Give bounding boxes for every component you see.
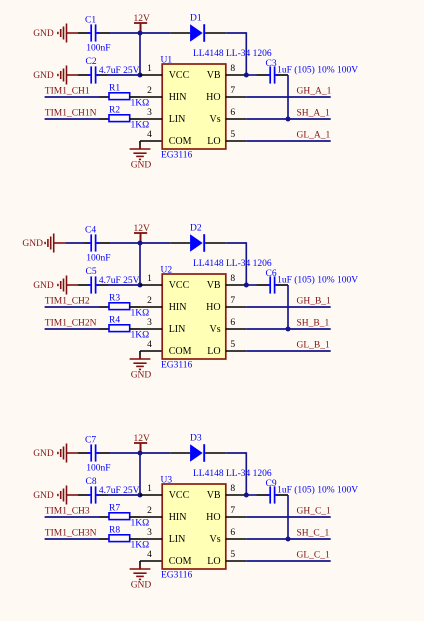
- svg-text:4: 4: [147, 130, 152, 140]
- svg-text:C3: C3: [266, 59, 277, 69]
- svg-text:VCC: VCC: [169, 490, 190, 501]
- svg-text:GND: GND: [22, 239, 43, 249]
- power port GND (U1 VCC cap): [58, 66, 78, 85]
- pin 4 (COM): [147, 550, 191, 567]
- svg-text:HO: HO: [206, 92, 220, 103]
- svg-text:3: 3: [147, 318, 152, 328]
- capacitor C4: [84, 234, 111, 251]
- svg-text:C1: C1: [85, 15, 96, 25]
- svg-text:5: 5: [230, 340, 235, 350]
- svg-text:HO: HO: [206, 512, 220, 523]
- wire: [139, 141, 141, 149]
- svg-text:1: 1: [147, 484, 152, 494]
- svg-text:U2: U2: [161, 266, 173, 276]
- svg-text:8: 8: [230, 484, 235, 494]
- power port GND (U2 top rail): [45, 234, 65, 253]
- svg-text:TIM1_CH3: TIM1_CH3: [45, 506, 90, 516]
- wire: [246, 140, 330, 142]
- svg-text:R2: R2: [109, 105, 120, 115]
- IC U2 EG3116: [162, 274, 226, 359]
- svg-text:Vs: Vs: [209, 534, 220, 545]
- junction: [138, 241, 143, 246]
- capacitor C6: [257, 276, 289, 293]
- wire: [108, 74, 140, 76]
- svg-text:VB: VB: [207, 280, 221, 291]
- junction: [286, 117, 291, 122]
- svg-text:C4: C4: [85, 225, 96, 235]
- svg-text:VB: VB: [207, 70, 221, 81]
- wire: [246, 350, 330, 352]
- svg-text:3: 3: [147, 108, 152, 118]
- svg-text:12V: 12V: [134, 224, 151, 234]
- svg-text:C5: C5: [86, 267, 97, 277]
- wire: [45, 538, 99, 540]
- power port GND (U3 top rail): [58, 444, 78, 463]
- svg-text:1KΩ: 1KΩ: [131, 309, 150, 319]
- ground (U1 COM): [130, 145, 151, 159]
- svg-text:SH_A_1: SH_A_1: [297, 108, 331, 118]
- junction: [286, 327, 291, 332]
- svg-text:R3: R3: [109, 293, 120, 303]
- pin 3 (LIN): [140, 318, 185, 335]
- wire: [140, 140, 162, 142]
- IC U1 EG3116: [162, 64, 226, 149]
- svg-text:TIM1_CH1: TIM1_CH1: [45, 86, 90, 96]
- svg-text:1uF (105) 10% 100V: 1uF (105) 10% 100V: [277, 65, 358, 76]
- svg-text:VCC: VCC: [169, 280, 190, 291]
- svg-text:7: 7: [230, 296, 235, 306]
- svg-text:GND: GND: [131, 160, 152, 170]
- svg-text:GND: GND: [33, 491, 54, 501]
- svg-text:SH_C_1: SH_C_1: [297, 528, 330, 538]
- svg-text:EG3116: EG3116: [161, 570, 193, 580]
- svg-text:1KΩ: 1KΩ: [131, 331, 150, 341]
- ground (U2 COM): [130, 355, 151, 369]
- svg-text:VB: VB: [207, 490, 221, 501]
- wire: [45, 118, 99, 120]
- svg-text:GH_C_1: GH_C_1: [297, 506, 332, 516]
- svg-text:2: 2: [147, 86, 152, 96]
- IC U3 EG3116: [162, 484, 226, 569]
- svg-text:100nF: 100nF: [86, 253, 110, 263]
- pin 5 (LO): [207, 340, 246, 357]
- pin 3 (LIN): [140, 108, 185, 125]
- wire: [226, 242, 246, 244]
- svg-text:C8: C8: [86, 477, 97, 487]
- svg-text:LO: LO: [207, 346, 220, 357]
- capacitor C1: [78, 24, 110, 41]
- svg-text:VCC: VCC: [169, 70, 190, 81]
- svg-text:TIM1_CH2N: TIM1_CH2N: [45, 318, 97, 328]
- svg-text:LO: LO: [207, 556, 220, 567]
- svg-text:GL_C_1: GL_C_1: [297, 550, 331, 560]
- wire: [246, 284, 256, 286]
- wire: [245, 32, 247, 75]
- svg-text:TIM1_CH1N: TIM1_CH1N: [45, 108, 97, 118]
- junction: [138, 493, 143, 498]
- svg-text:EG3116: EG3116: [161, 360, 193, 370]
- wire: [226, 32, 246, 34]
- wire: [245, 452, 247, 495]
- svg-text:100nF: 100nF: [86, 43, 110, 53]
- svg-text:2: 2: [147, 296, 152, 306]
- svg-text:2: 2: [147, 506, 152, 516]
- svg-text:LO: LO: [207, 136, 220, 147]
- svg-text:LL4148 LL-34 1206: LL4148 LL-34 1206: [193, 49, 272, 59]
- svg-text:GND: GND: [33, 71, 54, 81]
- svg-text:C6: C6: [266, 269, 277, 279]
- svg-text:LIN: LIN: [169, 534, 186, 545]
- svg-text:LL4148 LL-34 1206: LL4148 LL-34 1206: [193, 259, 272, 269]
- wire: [246, 118, 330, 120]
- pin 8 (VB): [207, 484, 247, 501]
- wire: [245, 242, 247, 285]
- resistor R8: [99, 535, 140, 542]
- svg-text:100nF: 100nF: [86, 463, 110, 473]
- pin 5 (LO): [207, 550, 246, 567]
- pin 6 (Vs): [209, 528, 246, 545]
- pin 7 (HO): [206, 86, 246, 103]
- wire: [139, 243, 141, 285]
- pin 7 (HO): [206, 296, 246, 313]
- wire: [45, 516, 99, 518]
- svg-text:GH_B_1: GH_B_1: [297, 296, 332, 306]
- wire: [110, 242, 170, 244]
- svg-text:GH_A_1: GH_A_1: [297, 86, 332, 96]
- wire: [108, 284, 140, 286]
- pin 2 (HIN): [140, 506, 186, 523]
- wire: [139, 351, 141, 359]
- svg-text:8: 8: [230, 274, 235, 284]
- svg-text:6: 6: [230, 108, 235, 118]
- svg-text:EG3116: EG3116: [161, 150, 193, 160]
- wire: [246, 516, 330, 518]
- wire: [139, 33, 141, 75]
- svg-text:5: 5: [230, 550, 235, 560]
- resistor R1: [99, 93, 140, 100]
- wire: [65, 242, 83, 244]
- svg-text:HIN: HIN: [169, 302, 187, 313]
- capacitor C3: [257, 66, 289, 83]
- svg-text:GND: GND: [33, 29, 54, 39]
- svg-text:TIM1_CH3N: TIM1_CH3N: [45, 528, 97, 538]
- svg-text:R8: R8: [109, 525, 120, 535]
- wire: [287, 75, 289, 119]
- svg-text:GND: GND: [33, 449, 54, 459]
- svg-text:HO: HO: [206, 302, 220, 313]
- svg-text:12V: 12V: [134, 14, 151, 24]
- wire: [246, 306, 330, 308]
- svg-text:HIN: HIN: [169, 512, 187, 523]
- pin 4 (COM): [147, 340, 191, 357]
- diode D1: [170, 24, 226, 42]
- wire: [246, 328, 330, 330]
- wire: [140, 350, 162, 352]
- svg-text:HIN: HIN: [169, 92, 187, 103]
- pin 3 (LIN): [140, 528, 185, 545]
- wire: [246, 560, 330, 562]
- svg-text:8: 8: [230, 64, 235, 74]
- wire: [45, 328, 99, 330]
- pin 8 (VB): [207, 64, 247, 81]
- resistor R7: [99, 513, 140, 520]
- pin 6 (Vs): [209, 108, 246, 125]
- capacitor C8: [78, 486, 108, 503]
- svg-text:SH_B_1: SH_B_1: [297, 318, 330, 328]
- wire: [110, 32, 170, 34]
- svg-text:1KΩ: 1KΩ: [131, 541, 150, 551]
- power port 12V: [134, 23, 147, 33]
- svg-text:GL_A_1: GL_A_1: [297, 130, 331, 140]
- svg-text:C2: C2: [86, 57, 97, 67]
- power port 12V: [134, 233, 147, 243]
- wire: [226, 452, 246, 454]
- power port GND (U2 VCC cap): [58, 276, 78, 295]
- wire: [246, 96, 330, 98]
- junction: [138, 283, 143, 288]
- svg-text:COM: COM: [169, 346, 192, 357]
- diode D2: [170, 234, 226, 252]
- svg-text:LL4148 LL-34 1206: LL4148 LL-34 1206: [193, 469, 272, 479]
- svg-text:4: 4: [147, 550, 152, 560]
- wire: [45, 306, 99, 308]
- svg-text:GND: GND: [131, 580, 152, 590]
- junction: [244, 493, 249, 498]
- svg-text:LIN: LIN: [169, 324, 186, 335]
- pin 1 (VCC): [140, 64, 190, 81]
- svg-text:GND: GND: [131, 370, 152, 380]
- wire: [246, 494, 256, 496]
- junction: [138, 73, 143, 78]
- svg-text:1KΩ: 1KΩ: [131, 519, 150, 529]
- svg-text:GND: GND: [33, 281, 54, 291]
- diode D3: [170, 444, 226, 462]
- junction: [138, 31, 143, 36]
- resistor R4: [99, 325, 140, 332]
- pin 8 (VB): [207, 274, 247, 291]
- junction: [244, 283, 249, 288]
- svg-text:C7: C7: [85, 435, 96, 445]
- ground (U3 COM): [130, 565, 151, 579]
- pin 6 (Vs): [209, 318, 246, 335]
- svg-text:LIN: LIN: [169, 114, 186, 125]
- wire: [140, 560, 162, 562]
- svg-text:GL_B_1: GL_B_1: [297, 340, 331, 350]
- pin 2 (HIN): [140, 296, 186, 313]
- capacitor C9: [257, 486, 289, 503]
- resistor R2: [99, 115, 140, 122]
- capacitor C5: [78, 276, 108, 293]
- svg-text:6: 6: [230, 318, 235, 328]
- power port GND (U1 top rail): [58, 24, 78, 43]
- svg-text:1KΩ: 1KΩ: [131, 99, 150, 109]
- power port 12V: [134, 443, 147, 453]
- junction: [286, 537, 291, 542]
- wire: [246, 538, 330, 540]
- svg-text:1KΩ: 1KΩ: [131, 121, 150, 131]
- svg-text:6: 6: [230, 528, 235, 538]
- pin 4 (COM): [147, 130, 191, 147]
- junction: [138, 451, 143, 456]
- svg-text:5: 5: [230, 130, 235, 140]
- svg-text:D2: D2: [190, 223, 202, 233]
- resistor R3: [99, 303, 140, 310]
- wire: [139, 561, 141, 569]
- svg-text:1uF (105) 10% 100V: 1uF (105) 10% 100V: [277, 485, 358, 496]
- svg-text:R7: R7: [109, 503, 120, 513]
- junction: [244, 73, 249, 78]
- wire: [110, 452, 170, 454]
- power port GND (U3 VCC cap): [58, 486, 78, 505]
- pin 5 (LO): [207, 130, 246, 147]
- capacitor C7: [78, 444, 110, 461]
- svg-text:TIM1_CH2: TIM1_CH2: [45, 296, 90, 306]
- svg-text:U1: U1: [161, 56, 173, 66]
- svg-text:R1: R1: [109, 83, 120, 93]
- wire: [45, 96, 99, 98]
- svg-text:1: 1: [147, 64, 152, 74]
- pin 7 (HO): [206, 506, 246, 523]
- wire: [287, 285, 289, 329]
- svg-text:7: 7: [230, 506, 235, 516]
- svg-text:C9: C9: [266, 479, 277, 489]
- wire: [139, 453, 141, 495]
- svg-text:12V: 12V: [134, 434, 151, 444]
- svg-text:Vs: Vs: [209, 324, 220, 335]
- svg-text:1: 1: [147, 274, 152, 284]
- svg-text:R4: R4: [109, 315, 120, 325]
- pin 1 (VCC): [140, 274, 190, 291]
- svg-text:Vs: Vs: [209, 114, 220, 125]
- svg-text:COM: COM: [169, 136, 192, 147]
- svg-text:COM: COM: [169, 556, 192, 567]
- capacitor C2: [78, 66, 108, 83]
- svg-text:7: 7: [230, 86, 235, 96]
- svg-text:1uF (105) 10% 100V: 1uF (105) 10% 100V: [277, 275, 358, 286]
- svg-text:D1: D1: [190, 13, 202, 23]
- wire: [287, 495, 289, 539]
- svg-text:4: 4: [147, 340, 152, 350]
- svg-text:U3: U3: [161, 476, 173, 486]
- wire: [246, 74, 256, 76]
- pin 2 (HIN): [140, 86, 186, 103]
- svg-text:3: 3: [147, 528, 152, 538]
- wire: [108, 494, 140, 496]
- pin 1 (VCC): [140, 484, 190, 501]
- svg-text:D3: D3: [190, 433, 202, 443]
